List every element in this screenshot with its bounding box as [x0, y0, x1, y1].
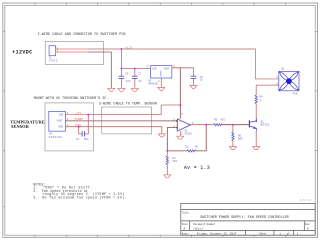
svg-text:Av = 1.3: Av = 1.3 [184, 165, 210, 171]
svg-text:B1: B1 [281, 67, 285, 70]
svg-text:SWITCHER POWER SUPPLY, FAN SPE: SWITCHER POWER SUPPLY, FAN SPEED CONTROL… [200, 216, 288, 220]
junction GND/C4 [78, 126, 80, 128]
svg-text:R4: R4 [260, 96, 264, 99]
resistor R2 feedback [167, 125, 206, 152]
wire: inverting input to feedback node [167, 128, 177, 151]
regulator U3 LM78L05 [147, 65, 175, 85]
title block [181, 203, 315, 235]
svg-text:LM78L05: LM78L05 [148, 82, 158, 85]
svg-text:CON2: CON2 [49, 60, 58, 63]
wire: +12V branch down to cap rail [121, 49, 149, 69]
capacitor C7 [132, 69, 142, 89]
svg-text:+12VDC: +12VDC [12, 50, 32, 56]
svg-text:DNS: DNS [238, 138, 243, 141]
fan B1 [276, 67, 299, 95]
svg-text:+12V: +12V [125, 46, 133, 49]
svg-text:C4: C4 [76, 138, 80, 141]
ground (C6) [118, 88, 125, 91]
capacitor C6 [119, 69, 131, 89]
svg-text:R5: R5 [214, 119, 218, 122]
wire: +12V top run [56, 48, 88, 50]
svg-text:SENSOR: SENSOR [11, 124, 30, 129]
junction +12V node [120, 48, 122, 50]
svg-text:47U: 47U [126, 80, 131, 83]
wire: collector up to R4 [255, 104, 257, 118]
svg-text:Date:: Date: [182, 233, 189, 236]
svg-text:+5V: +5V [75, 112, 81, 115]
ground (cable gnd) [158, 134, 165, 137]
ground (op-amp) [177, 136, 184, 139]
junction (feedback node) [166, 150, 168, 152]
svg-text:3. No fan minimum fan speed (: 3. No fan minimum fan speed (VFAN = 5V). [33, 196, 126, 200]
capacitor C5 [191, 76, 203, 85]
resistor R6 DNS [232, 125, 243, 147]
capacitor C4 (bypass) [76, 115, 89, 142]
wire: op-amp output [190, 124, 214, 126]
ground (emitter) [253, 147, 260, 150]
wire: VOUT to C5 [172, 68, 194, 76]
svg-text:Rev: Rev [305, 223, 310, 226]
svg-text:0U1: 0U1 [84, 138, 89, 141]
wire: sensor VOUT row (VTEMP) [65, 120, 176, 122]
svg-text:VDD: VDD [59, 114, 64, 117]
svg-text:C6: C6 [125, 73, 129, 76]
wire: op-amp V- stub [179, 131, 181, 136]
ground (C5) [190, 85, 197, 88]
wire: CON2 pin2 to ground [56, 51, 88, 53]
wire: fan pin2 row [256, 84, 279, 86]
svg-text:FAN: FAN [293, 93, 298, 96]
svg-text:0.5.7.b: 0.5.7.b [300, 199, 312, 202]
box: temperature sensor module [45, 103, 94, 151]
junction (5V rail) [179, 104, 181, 106]
svg-text:VIN: VIN [152, 68, 157, 71]
op-amp U1 TLV271 [173, 113, 193, 136]
ground (R3) [164, 175, 171, 178]
svg-text:GND: GND [59, 126, 64, 129]
svg-text:MOUNT WITH U2 TOUCHING SWITCHE: MOUNT WITH U2 TOUCHING SWITCHER'S IC. [34, 96, 109, 101]
resistor R4 [255, 85, 263, 103]
svg-text:VTEMP: VTEMP [74, 118, 83, 121]
svg-text:Friday, October 13, 2017: Friday, October 13, 2017 [197, 232, 237, 236]
svg-text:<Doc>: <Doc> [193, 227, 203, 231]
ground (C7) [131, 88, 138, 91]
NOTES text [33, 182, 126, 199]
svg-text:VOUT: VOUT [163, 68, 170, 71]
svg-text:Size: Size [182, 223, 188, 226]
svg-text:2-WIRE CABLE AND CONNECTOR TO: 2-WIRE CABLE AND CONNECTOR TO SWITCHER P… [38, 33, 126, 37]
svg-text:MCP9700: MCP9700 [49, 136, 62, 139]
svg-text:TLV271: TLV271 [184, 132, 192, 135]
connector J1 CON2 [49, 46, 56, 56]
wire: sensor VDD row (+5V) [65, 114, 88, 116]
resistor R5 series [214, 119, 250, 126]
svg-text:R2: R2 [185, 145, 189, 148]
junction (base node) [232, 124, 234, 126]
junction C6 rail [120, 68, 122, 70]
svg-text:471: 471 [220, 119, 225, 122]
svg-text:Sheet: Sheet [259, 233, 267, 236]
svg-text:VOUT: VOUT [57, 120, 64, 123]
svg-text:1U: 1U [200, 79, 204, 82]
wire: sensor GND row [65, 127, 161, 134]
border zone ticks right [315, 31, 317, 150]
svg-text:3-WIRE CABLE TO TEMP. SENSOR: 3-WIRE CABLE TO TEMP. SENSOR [99, 102, 158, 106]
box: 3-wire cable [102, 107, 152, 134]
svg-text:C7: C7 [138, 73, 142, 76]
svg-text:1K: 1K [195, 145, 199, 148]
border zone ticks bottom [35, 235, 285, 237]
svg-text:Title: Title [182, 211, 190, 214]
svg-text:Document Number: Document Number [193, 223, 216, 226]
wire: 5V rail to sensor [161, 105, 180, 115]
junction C7 rail [134, 68, 136, 70]
ground (reg) [158, 87, 165, 90]
svg-text:3K3: 3K3 [172, 160, 177, 163]
junction +5V/C4 [87, 114, 89, 116]
ground (R6) [229, 147, 236, 150]
border zone ticks left [3, 31, 5, 206]
svg-text:MJF122: MJF122 [260, 124, 269, 127]
transistor Q1 MJF122 [249, 118, 269, 131]
junction (output node) [205, 124, 207, 126]
svg-text:1U: 1U [138, 80, 142, 83]
box: 2-wire cable to switcher pcb [45, 42, 103, 65]
wire: emitter to ground [255, 131, 257, 147]
svg-text:A: A [183, 227, 185, 231]
temp sensor U4 MCP9700 [49, 111, 69, 138]
resistor R3 to ground [166, 151, 177, 175]
wire: reg gnd stub [160, 78, 162, 87]
ground (pin2) [108, 88, 115, 91]
wire: 5V rail down [179, 68, 181, 105]
wire: 5V rail to op-amp V+ [179, 105, 181, 119]
